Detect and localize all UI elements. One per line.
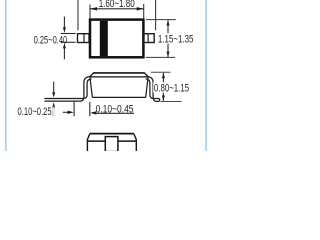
dimension line 0.80~1.15 — [162, 73, 164, 101]
body outline (top view) — [90, 20, 143, 58]
dimension line 1.60~1.80 — [90, 8, 144, 10]
dim 0.10~0.45 ext tick right — [89, 102, 91, 116]
chamfer right — [134, 134, 137, 140]
svg-text:0.10~0.25: 0.10~0.25 — [18, 106, 52, 118]
extension line from right lead tip — [155, 0, 157, 30]
ext line 1.15~1.35 bottom — [146, 56, 175, 58]
dim 0.10~0.45 left arrow — [63, 111, 71, 113]
extension line body right edge — [143, 4, 145, 19]
left lead (top view) — [78, 34, 90, 43]
extension line body left edge — [89, 5, 91, 19]
artifact box after label — [52, 107, 54, 115]
dimension line 1.15~1.35 — [167, 20, 169, 57]
right lead (top view) — [144, 34, 154, 43]
dim 0.25~0.40 upper arrow — [63, 17, 65, 30]
svg-text:0.80~1.15: 0.80~1.15 — [154, 82, 189, 94]
svg-text:0.25~0.40: 0.25~0.40 — [34, 35, 68, 47]
body chamfer right — [145, 73, 149, 77]
dim 0.10~0.45 right arrow + line under label — [90, 111, 96, 114]
top edge — [90, 133, 134, 135]
chamfer left — [87, 134, 90, 140]
svg-text:1.60~1.80: 1.60~1.80 — [99, 0, 135, 10]
body side left — [90, 77, 93, 98]
left lead divider — [83, 34, 85, 43]
right lead divider — [147, 34, 149, 43]
ext line 0.80~1.15 bottom (seating plane) — [161, 101, 182, 103]
body side right — [146, 77, 148, 98]
side right — [135, 139, 137, 151]
cathode band — [100, 21, 108, 56]
right lead (outer + tip + inner) — [146, 76, 160, 101]
parting line — [90, 76, 149, 78]
table cell border right — [205, 0, 207, 151]
body chamfer left — [90, 73, 94, 77]
dim 0.10~0.25 upper arrow — [53, 82, 55, 95]
svg-text:0.10~0.45: 0.10~0.45 — [96, 103, 134, 115]
ext line 0.80~1.15 top — [151, 71, 171, 73]
left lead inner line + foot top / ext — [44, 79, 91, 99]
left lead outer line + foot bottom / ext — [44, 76, 91, 101]
extension line from left lead tip — [77, 0, 79, 30]
label 0.80~1.15 — [153, 82, 190, 93]
dim 0.10~0.45 ext tick left — [73, 102, 75, 116]
ext line 1.15~1.35 top — [146, 19, 176, 21]
svg-text:1.15~1.35: 1.15~1.35 — [158, 33, 194, 45]
body top edge — [93, 72, 145, 74]
body bottom edge — [92, 96, 145, 98]
side left — [86, 139, 88, 151]
center tab (lead, end view) — [105, 137, 118, 152]
label 1.15~1.35 — [157, 33, 194, 44]
dim 0.25~0.40 extension dashes — [61, 33, 76, 35]
dim 0.25~0.40 lower arrow — [63, 43, 66, 48]
dim 0.10~0.25 lower arrow — [52, 102, 55, 107]
mid line — [87, 140, 136, 142]
table cell border left — [5, 0, 7, 151]
